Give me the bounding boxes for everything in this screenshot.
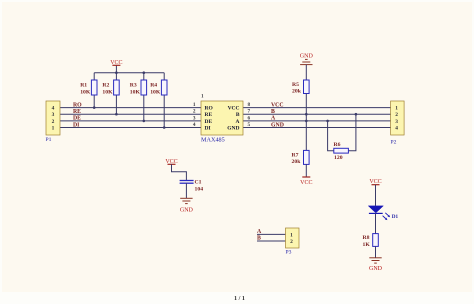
svg-text:VCC: VCC: [165, 159, 177, 165]
svg-text:P2: P2: [391, 140, 397, 146]
label P1: [46, 137, 52, 143]
svg-text:GND: GND: [369, 266, 383, 272]
VCC power symbol (LED): [369, 179, 381, 185]
svg-text:P1: P1: [46, 137, 52, 143]
svg-text:120: 120: [334, 155, 343, 161]
U1 pin name DI: [205, 126, 211, 132]
svg-text:VCC: VCC: [228, 106, 240, 112]
connector P1: [46, 101, 60, 135]
svg-text:1: 1: [52, 126, 55, 132]
svg-text:RE: RE: [73, 109, 81, 115]
svg-text:D1: D1: [392, 214, 399, 220]
wire RE (P1.3 to U1.2): [60, 113, 201, 115]
junction chain/B: [305, 113, 308, 116]
wire R5 to R7 (through B and A): [305, 94, 307, 151]
VCC power symbol (pull-ups): [110, 60, 122, 66]
junction bus/R3: [143, 71, 146, 74]
svg-text:1: 1: [201, 94, 204, 100]
junction chain/A: [305, 120, 308, 123]
svg-text:DI: DI: [73, 122, 80, 128]
junction bus/R2: [115, 71, 118, 74]
svg-text:2: 2: [52, 119, 55, 125]
wire R7 to VCC: [305, 164, 307, 177]
svg-text:DE: DE: [73, 116, 81, 122]
ground symbol (below R8): [369, 258, 383, 272]
svg-text:2: 2: [193, 109, 196, 115]
svg-text:B: B: [236, 112, 240, 118]
wire DE (P1.2 to U1.3): [60, 120, 201, 122]
U1 pin name RE: [205, 112, 213, 118]
resistor R1: [80, 80, 97, 96]
U1 pin number 4: [193, 122, 196, 128]
svg-text:2: 2: [290, 239, 293, 245]
svg-text:1: 1: [395, 106, 398, 112]
wire DI (P1.1 to U1.4): [60, 127, 201, 129]
svg-text:DE: DE: [205, 119, 213, 125]
svg-text:7: 7: [248, 109, 251, 115]
svg-text:10K: 10K: [102, 90, 113, 96]
net label RE: [73, 109, 81, 115]
svg-text:GND: GND: [227, 126, 239, 132]
wire B to P3.2: [257, 240, 286, 242]
resistor R5: [292, 80, 309, 95]
resistor R6 (termination): [328, 114, 356, 161]
U1 pin number 7: [248, 109, 251, 115]
svg-text:C1: C1: [195, 179, 202, 185]
label P2: [391, 140, 397, 146]
svg-text:R7: R7: [292, 152, 299, 158]
LED D1: [368, 206, 390, 220]
connector P3: [286, 228, 300, 248]
svg-text:VCC: VCC: [300, 180, 312, 186]
net label RO: [73, 102, 82, 108]
svg-text:1 / 1: 1 / 1: [234, 295, 245, 302]
svg-text:GND: GND: [180, 208, 194, 214]
wire GND to R5: [305, 65, 307, 80]
svg-text:4: 4: [395, 126, 398, 132]
svg-text:3: 3: [52, 112, 55, 118]
wire R8 to GND: [375, 246, 377, 257]
resistor R8: [363, 234, 379, 248]
U1 pin name B: [236, 112, 240, 118]
wire A to P3.1: [257, 233, 286, 235]
VCC power symbol (C1): [165, 159, 177, 165]
label D1: [392, 214, 399, 220]
wire B (U1.7 to P2.2): [243, 113, 391, 115]
U1 pin name GND: [227, 126, 239, 132]
svg-text:10K: 10K: [80, 90, 91, 96]
ground symbol (below C1): [180, 198, 194, 213]
net label A: [271, 116, 276, 122]
svg-text:VCC: VCC: [271, 102, 284, 108]
svg-text:R6: R6: [334, 142, 341, 148]
svg-text:R4: R4: [150, 83, 157, 89]
U1 pin number 8: [248, 102, 251, 108]
net label B (P3): [257, 235, 261, 241]
label P3: [286, 249, 292, 255]
U1 pin name A: [236, 119, 240, 125]
VCC power symbol (below R7, inverted): [300, 177, 312, 186]
svg-text:8: 8: [248, 102, 251, 108]
svg-text:VCC: VCC: [369, 179, 381, 185]
svg-text:RE: RE: [205, 112, 213, 118]
resistor R3: [130, 80, 147, 96]
U1 pin number 3: [193, 115, 196, 121]
U1 pin number 2: [193, 109, 196, 115]
wire pull-up bus: [94, 65, 164, 127]
page footer 1 / 1: [234, 295, 245, 302]
junction R6/B: [355, 113, 358, 116]
wire VCC to D1: [375, 185, 377, 206]
svg-text:GND: GND: [300, 54, 314, 60]
junction R3/DE: [143, 120, 146, 123]
svg-text:DI: DI: [205, 126, 211, 132]
svg-text:6: 6: [248, 115, 251, 121]
junction R4/DI: [163, 126, 166, 129]
resistor R2: [102, 80, 119, 96]
capacitor C1: [180, 179, 204, 192]
svg-text:R1: R1: [80, 83, 87, 89]
U1 pin name DE: [205, 119, 213, 125]
svg-text:P3: P3: [286, 249, 292, 255]
U1 designator 1: [201, 94, 204, 100]
net label DI: [73, 122, 80, 128]
U1 pin number 6: [248, 115, 251, 121]
wire D1 to R8: [375, 213, 377, 233]
svg-text:104: 104: [195, 186, 204, 192]
svg-text:R3: R3: [130, 83, 137, 89]
svg-text:A: A: [236, 119, 240, 125]
U1 pin name VCC: [228, 106, 240, 112]
svg-text:B: B: [271, 109, 275, 115]
wire VCC (U1.8 to P2.1): [243, 107, 391, 109]
svg-text:1: 1: [193, 102, 196, 108]
svg-text:20k: 20k: [292, 89, 302, 95]
U1 pin name RO: [205, 106, 214, 112]
wire VCC to C1: [172, 164, 187, 180]
wire RO (P1.4 to U1.1): [60, 107, 201, 109]
svg-text:RO: RO: [73, 102, 82, 108]
svg-text:5: 5: [248, 122, 251, 128]
net label DE: [73, 116, 81, 122]
junction R6/A: [326, 120, 329, 123]
svg-text:3: 3: [395, 119, 398, 125]
net label A (P3): [257, 229, 262, 235]
svg-text:20k: 20k: [292, 159, 302, 165]
svg-text:MAX485: MAX485: [201, 136, 225, 143]
resistor R7: [292, 150, 310, 165]
svg-text:R2: R2: [102, 83, 109, 89]
U1 pin number 5: [248, 122, 251, 128]
svg-text:VCC: VCC: [110, 60, 122, 66]
svg-text:10K: 10K: [130, 90, 141, 96]
ground symbol (above R5): [300, 54, 314, 65]
svg-text:1: 1: [290, 232, 293, 238]
net label VCC: [271, 102, 284, 108]
svg-text:10K: 10K: [150, 90, 161, 96]
wire C1 to GND: [185, 183, 187, 198]
svg-text:4: 4: [52, 106, 55, 112]
svg-text:4: 4: [193, 122, 196, 128]
junction R2/RE: [115, 113, 118, 116]
U1 pin number 1: [193, 102, 196, 108]
op-amp U1 MAX485 body: [201, 101, 243, 135]
wire A (U1.6 to P2.3): [243, 120, 391, 122]
svg-text:R5: R5: [292, 82, 299, 88]
svg-text:3: 3: [193, 115, 196, 121]
svg-text:GND: GND: [271, 122, 284, 128]
svg-text:RO: RO: [205, 106, 214, 112]
connector P2: [391, 101, 405, 135]
svg-text:1K: 1K: [363, 242, 371, 248]
label MAX485: [201, 136, 225, 143]
wire GND (U1.5 to P2.4): [243, 127, 391, 129]
net label GND: [271, 122, 284, 128]
net label B: [271, 109, 275, 115]
junction R1/RO: [93, 106, 96, 109]
resistor R4: [150, 80, 167, 96]
svg-text:2: 2: [395, 112, 398, 118]
svg-text:R8: R8: [363, 235, 370, 241]
